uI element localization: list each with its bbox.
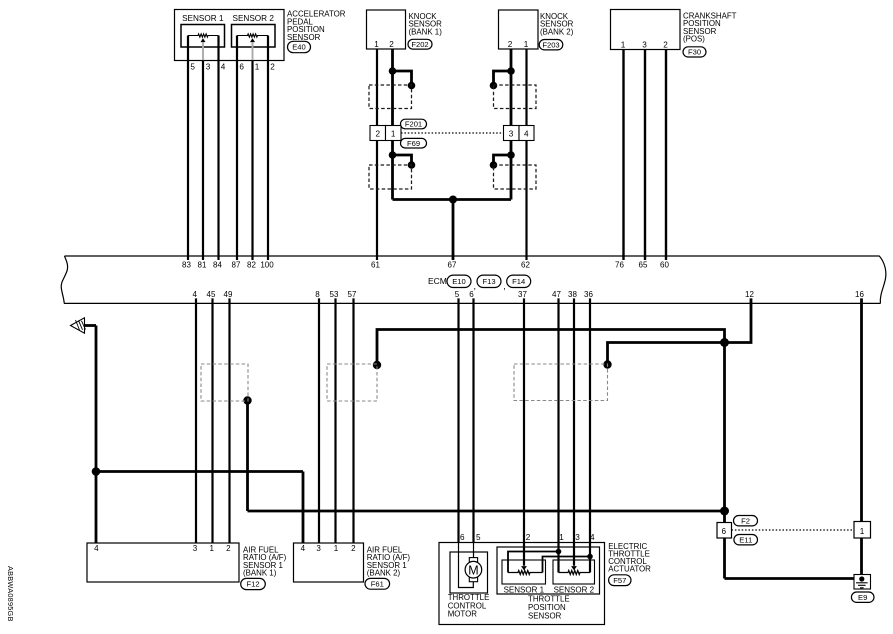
svg-text:1: 1	[559, 533, 564, 542]
svg-text:1: 1	[391, 130, 396, 139]
svg-text:2: 2	[226, 544, 231, 553]
svg-text:100: 100	[260, 261, 274, 270]
svg-text:53: 53	[330, 290, 339, 299]
svg-text:57: 57	[348, 290, 357, 299]
svg-text:4: 4	[301, 544, 306, 553]
svg-text:(BANK 2): (BANK 2)	[367, 568, 401, 577]
svg-text:SENSOR: SENSOR	[287, 33, 321, 42]
svg-text:1: 1	[334, 544, 339, 553]
svg-text:47: 47	[552, 290, 561, 299]
svg-text:2: 2	[351, 544, 356, 553]
svg-text:76: 76	[615, 261, 624, 270]
svg-text:SENSOR 1: SENSOR 1	[182, 14, 224, 23]
svg-text:ECM: ECM	[428, 276, 447, 286]
svg-text:8: 8	[315, 290, 320, 299]
svg-text:6: 6	[722, 527, 727, 536]
svg-text:36: 36	[584, 290, 593, 299]
svg-text:2: 2	[389, 40, 394, 49]
svg-text:5: 5	[476, 533, 481, 542]
svg-text:49: 49	[224, 290, 233, 299]
svg-text:F201: F201	[405, 120, 422, 129]
svg-text:1: 1	[860, 527, 865, 536]
svg-text:1: 1	[209, 544, 214, 553]
svg-text:E40: E40	[292, 43, 306, 52]
svg-text:84: 84	[213, 261, 222, 270]
svg-text:2: 2	[663, 41, 668, 50]
svg-text:E9: E9	[858, 593, 867, 602]
svg-text:SENSOR 1: SENSOR 1	[504, 586, 545, 595]
svg-text:4: 4	[524, 130, 529, 139]
svg-text:SENSOR: SENSOR	[528, 612, 562, 621]
svg-text:(POS): (POS)	[683, 35, 705, 44]
svg-text:12: 12	[745, 290, 754, 299]
svg-text:F202: F202	[411, 40, 428, 49]
svg-text:F13: F13	[482, 277, 495, 286]
svg-text:F2: F2	[741, 516, 750, 525]
svg-text:MOTOR: MOTOR	[448, 610, 478, 619]
svg-text:(BANK 1): (BANK 1)	[243, 568, 277, 577]
svg-text:1: 1	[524, 40, 529, 49]
svg-text:E10: E10	[452, 277, 466, 286]
svg-text:4: 4	[94, 544, 99, 553]
svg-text:ACTUATOR: ACTUATOR	[608, 565, 651, 574]
svg-text:F203: F203	[542, 40, 559, 49]
svg-text:83: 83	[182, 261, 191, 270]
svg-text:1: 1	[255, 63, 260, 72]
svg-text:F57: F57	[613, 576, 626, 585]
svg-text:4: 4	[192, 290, 197, 299]
svg-text:,: ,	[474, 281, 477, 291]
svg-text:61: 61	[371, 261, 380, 270]
svg-text:5: 5	[455, 290, 460, 299]
svg-text:(BANK 1): (BANK 1)	[409, 27, 443, 36]
svg-text:4: 4	[590, 533, 595, 542]
svg-text:82: 82	[247, 261, 256, 270]
svg-text:3: 3	[193, 544, 198, 553]
svg-text:SENSOR 2: SENSOR 2	[554, 586, 595, 595]
svg-text:1: 1	[621, 41, 626, 50]
svg-text:(BANK 2): (BANK 2)	[540, 27, 574, 36]
svg-text:65: 65	[639, 261, 648, 270]
svg-text:F12: F12	[246, 580, 259, 589]
svg-text:37: 37	[518, 290, 527, 299]
svg-text:87: 87	[232, 261, 241, 270]
svg-text:67: 67	[448, 261, 457, 270]
svg-text:16: 16	[855, 290, 864, 299]
svg-text:81: 81	[198, 261, 207, 270]
svg-text:3: 3	[575, 533, 580, 542]
svg-text:2: 2	[526, 533, 531, 542]
svg-text:SENSOR 2: SENSOR 2	[232, 14, 274, 23]
svg-text:3: 3	[642, 41, 647, 50]
svg-text:3: 3	[509, 130, 514, 139]
svg-text:4: 4	[221, 63, 226, 72]
svg-text:38: 38	[568, 290, 577, 299]
svg-text:3: 3	[316, 544, 321, 553]
svg-text:2: 2	[270, 63, 275, 72]
svg-text:F30: F30	[688, 48, 701, 57]
svg-text:45: 45	[207, 290, 216, 299]
svg-text:M: M	[468, 563, 478, 577]
svg-text:3: 3	[206, 63, 211, 72]
svg-text:6: 6	[460, 533, 465, 542]
svg-text:5: 5	[190, 63, 195, 72]
svg-text:60: 60	[660, 261, 669, 270]
svg-text:2: 2	[376, 130, 381, 139]
svg-text:1: 1	[374, 40, 379, 49]
svg-text:6: 6	[239, 63, 244, 72]
svg-text:F69: F69	[407, 139, 420, 148]
svg-text:F14: F14	[512, 277, 525, 286]
svg-text:,: ,	[503, 281, 506, 291]
svg-text:ABBWA0895GB: ABBWA0895GB	[6, 566, 15, 622]
svg-text:2: 2	[508, 40, 513, 49]
svg-text:6: 6	[469, 290, 474, 299]
svg-text:62: 62	[521, 261, 530, 270]
svg-text:F61: F61	[371, 579, 384, 588]
svg-text:E11: E11	[739, 535, 752, 544]
